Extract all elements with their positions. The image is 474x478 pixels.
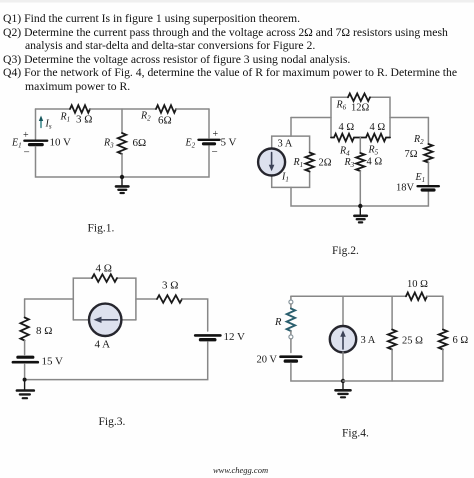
svg-text:3 Ω: 3 Ω (162, 280, 178, 292)
svg-text:R3: R3 (103, 138, 114, 150)
svg-text:20 V: 20 V (257, 355, 278, 366)
wire middle lower Fig1 (121, 154, 123, 177)
resistor R (blue) Fig4 (287, 309, 295, 332)
resistor R1 3ohm (70, 105, 90, 113)
battery 12V Fig3 (195, 335, 220, 339)
wire bottom rail Fig4 (343, 380, 443, 382)
resistor R2 6ohm (156, 105, 176, 113)
svg-text:E2: E2 (185, 138, 196, 150)
wire right branch upper Fig2 (427, 118, 429, 145)
svg-text:E1: E1 (415, 172, 426, 184)
battery 20V Fig4 (281, 357, 302, 361)
wire top-left Fig1 (36, 108, 71, 110)
svg-text:−: − (212, 146, 218, 158)
top edge scan strip (0, 0, 474, 3)
wire right edge upper Fig1 (208, 109, 210, 138)
svg-text:5 V: 5 V (221, 136, 237, 148)
wire top rail right Fig4 (427, 295, 443, 297)
resistor 25ohm (388, 330, 396, 350)
svg-text:6Ω: 6Ω (158, 115, 172, 127)
svg-text:Fig.2.: Fig.2. (332, 245, 359, 257)
svg-text:10 V: 10 V (50, 136, 72, 148)
wire top rail Fig4 (291, 295, 406, 297)
svg-text:6Ω: 6Ω (133, 137, 147, 149)
wire battery to bottom Fig4 (291, 364, 343, 382)
svg-text:12Ω: 12Ω (351, 103, 370, 114)
wire R lower Fig4 (290, 331, 292, 335)
bridge box edges Fig2 (331, 97, 348, 137)
source box Fig3 (73, 278, 92, 320)
resistor R6 12ohm (348, 94, 370, 102)
wire left branch upper Fig2 (290, 118, 292, 137)
wire top rail left Fig2 (291, 117, 331, 119)
wire left branch lower Fig2 (291, 187, 360, 206)
battery E1 10V (24, 141, 47, 145)
wire left upper Fig3 (24, 299, 26, 318)
svg-text:6 Ω: 6 Ω (453, 335, 469, 346)
wire 25ohm branch upper Fig4 (391, 296, 393, 329)
svg-text:7Ω: 7Ω (405, 149, 418, 160)
svg-text:R1: R1 (293, 157, 304, 169)
wire left edge lower Fig1 (36, 147, 123, 178)
svg-text:R: R (274, 317, 282, 328)
svg-text:R2: R2 (140, 111, 151, 123)
wire right lower Fig3 (25, 342, 208, 380)
wire bottom right Fig1 (122, 146, 209, 177)
svg-text:R3: R3 (344, 157, 355, 169)
svg-text:8 Ω: 8 Ω (36, 325, 52, 337)
battery 15V Fig3 (13, 357, 38, 362)
node circle top R (289, 300, 293, 304)
resistor R5 4ohm (360, 134, 390, 142)
resistor R1 2ohm Fig2 (305, 153, 313, 172)
svg-text:4 Ω: 4 Ω (339, 122, 355, 133)
resistor 10ohm Fig4 (406, 293, 427, 301)
svg-text:3 Ω: 3 Ω (76, 114, 92, 126)
current source 3A Fig4 (330, 326, 356, 352)
wire R upper Fig4 (290, 304, 292, 309)
svg-text:Fig.1.: Fig.1. (88, 223, 115, 235)
current source 4A (89, 304, 121, 336)
resistor R4 4ohm (331, 134, 360, 142)
wire 6ohm branch lower Fig4 (442, 350, 444, 382)
wire left edge upper Fig1 (35, 109, 37, 139)
wire source branch lower Fig4 (342, 352, 344, 381)
resistor 3ohm Fig3 (157, 295, 182, 303)
junction node Fig1 (120, 175, 124, 179)
svg-text:I1: I1 (281, 172, 289, 184)
wire 25ohm branch lower Fig4 (391, 350, 393, 382)
svg-text:www.chegg.com: www.chegg.com (213, 465, 268, 475)
wire top rail left Fig3 (25, 298, 74, 300)
svg-text:+: + (213, 129, 219, 140)
wire top-mid Fig1 (90, 108, 156, 110)
wire left mid Fig3 (24, 341, 26, 355)
wire R3 upper Fig2 (359, 138, 361, 154)
svg-text:3 A: 3 A (361, 335, 376, 346)
current arrow Is (blue) (39, 116, 43, 128)
svg-text:−: − (24, 147, 30, 159)
svg-text:R6: R6 (336, 100, 347, 112)
svg-text:R1: R1 (60, 112, 71, 124)
node circle bottom R (289, 335, 293, 339)
wire top-right Fig1 (176, 108, 209, 110)
ground Fig1 (116, 177, 128, 193)
resistor R2 7ohm Fig2 (424, 144, 432, 163)
battery E1 18V Fig2 (418, 186, 439, 190)
svg-text:R5: R5 (368, 145, 379, 157)
svg-text:R2: R2 (413, 134, 424, 146)
wire bottom rail right Fig2 (360, 190, 428, 206)
wire source branch upper Fig4 (342, 296, 344, 326)
source box Fig2 (272, 136, 310, 152)
ground Fig4 (336, 381, 351, 397)
wire middle branch Fig1 (121, 109, 123, 133)
resistor 8ohm Fig3 (20, 318, 28, 341)
ground Fig2 (354, 206, 366, 222)
svg-text:4 Ω: 4 Ω (367, 157, 383, 168)
resistor 4ohm Fig3 (92, 274, 117, 282)
battery E2 5V (199, 140, 220, 144)
svg-text:2Ω: 2Ω (319, 158, 332, 169)
svg-text:+: + (23, 130, 29, 141)
wire 6ohm branch upper Fig4 (442, 296, 444, 329)
wire top rail right Fig2 (390, 117, 428, 119)
wire R3 lower Fig2 (359, 171, 361, 206)
wire right mid Fig2 (427, 163, 429, 185)
svg-text:4 A: 4 A (95, 339, 111, 351)
wire left node upper Fig4 (290, 296, 292, 300)
svg-text:18V: 18V (396, 183, 415, 194)
svg-text:4 Ω: 4 Ω (370, 122, 386, 133)
svg-text:Fig.3.: Fig.3. (99, 416, 126, 428)
junction node Fig4 (341, 379, 345, 383)
wire left lower Fig3 (24, 365, 26, 380)
svg-text:R4: R4 (339, 146, 350, 158)
box bottom edges Fig3 (73, 319, 89, 321)
current source I1 3A (258, 149, 285, 176)
svg-text:3 A: 3 A (278, 139, 293, 150)
ground Fig3 (17, 380, 34, 399)
resistor 6ohm Fig4 (439, 330, 447, 350)
svg-text:Fig.4.: Fig.4. (342, 428, 369, 440)
svg-text:10 Ω: 10 Ω (407, 279, 428, 290)
resistor R3 6ohm (118, 133, 126, 154)
svg-text:25 Ω: 25 Ω (402, 336, 423, 347)
wire mid rail Fig3 (136, 298, 157, 300)
resistor R3 4ohm Fig2 (356, 153, 364, 171)
svg-text:4 Ω: 4 Ω (96, 263, 112, 275)
svg-text:E1: E1 (11, 138, 22, 150)
svg-text:15 V: 15 V (42, 356, 64, 368)
wire to battery Fig4 (290, 339, 292, 353)
svg-text:Is: Is (45, 119, 52, 131)
junction node Fig3 (23, 378, 27, 382)
wire top rail right Fig3 (182, 299, 208, 331)
svg-text:12 V: 12 V (224, 331, 246, 343)
junction node Fig2 (358, 204, 362, 208)
